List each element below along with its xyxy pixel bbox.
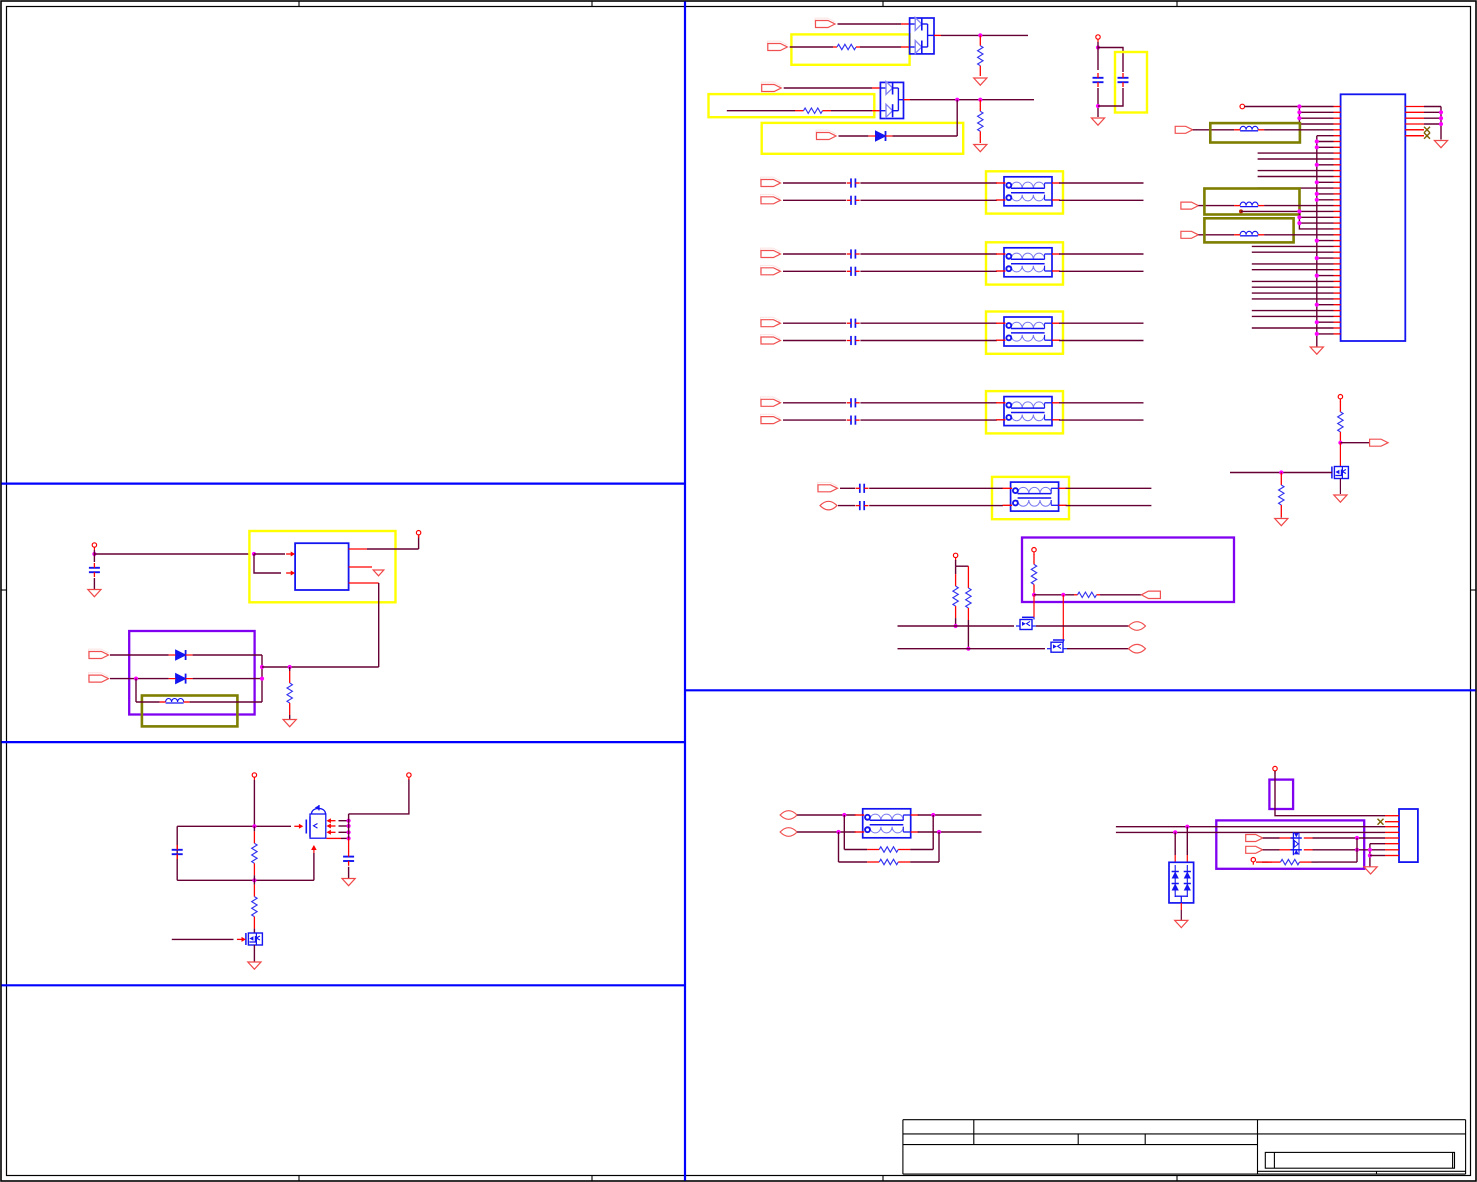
pin stub — [1334, 117, 1341, 119]
wire — [1059, 340, 1144, 342]
wire — [1313, 837, 1386, 839]
wire — [172, 938, 234, 940]
wire — [1193, 129, 1234, 131]
wire — [838, 832, 840, 862]
wire — [1252, 310, 1334, 312]
power node — [1240, 104, 1245, 109]
wire — [956, 565, 969, 567]
common-mode choke L6 — [855, 809, 919, 838]
wire — [843, 815, 845, 850]
resistor R16 — [1262, 859, 1318, 864]
node junction — [1315, 320, 1319, 324]
wire — [955, 560, 957, 566]
node junction — [1315, 274, 1319, 278]
zone tick bottom — [882, 1176, 884, 1182]
ground — [1334, 495, 1347, 502]
wire — [1317, 135, 1334, 137]
pin stub — [1334, 275, 1341, 277]
pin stub — [311, 845, 317, 853]
pin stub — [1334, 135, 1341, 137]
wire — [1059, 322, 1144, 324]
node junction — [955, 98, 959, 102]
wire — [378, 583, 380, 667]
port IN4+ — [761, 397, 781, 406]
wire — [1317, 304, 1334, 306]
dual diode U1 — [910, 18, 934, 54]
pin stub — [1334, 176, 1341, 178]
node junction — [1315, 239, 1319, 243]
pin stub — [1385, 815, 1399, 817]
pin stub — [904, 99, 911, 101]
pin stub — [1385, 855, 1399, 857]
wire — [93, 550, 95, 562]
wire — [1424, 106, 1441, 108]
wire — [254, 553, 285, 555]
node junction — [1297, 116, 1301, 120]
wire — [893, 135, 958, 137]
wire — [418, 535, 420, 549]
pin stub — [349, 566, 372, 568]
pin stub — [1334, 257, 1341, 259]
pin stub — [1405, 117, 1424, 119]
node junction — [252, 878, 256, 882]
pin stub — [1334, 146, 1341, 148]
node junction — [1297, 209, 1301, 213]
pin stub — [1334, 333, 1341, 335]
wire — [1317, 199, 1334, 201]
pin stub — [1334, 129, 1341, 131]
diode array D4 — [1169, 862, 1194, 903]
pin arrow — [286, 552, 295, 557]
node junction — [978, 33, 982, 37]
capacitor C2 — [1118, 73, 1129, 87]
zone tick bottom — [1176, 1176, 1178, 1182]
resistor R8 — [966, 566, 971, 649]
wire — [1370, 843, 1385, 845]
power node — [1273, 766, 1277, 773]
pin stub — [1334, 106, 1341, 108]
wire — [1033, 595, 1035, 618]
wire — [136, 701, 160, 703]
IC U3 — [295, 543, 349, 590]
wire — [1241, 210, 1334, 212]
pin stub — [1334, 315, 1341, 317]
TVS diode array D5 — [1291, 832, 1302, 855]
resistor R10 — [1279, 473, 1284, 518]
pin stub — [1405, 129, 1424, 131]
node junction — [1315, 145, 1319, 149]
port SDA1 — [1129, 644, 1146, 653]
port SDA — [1141, 591, 1160, 598]
N-MOSFET Q1 — [1016, 617, 1036, 629]
wire — [869, 505, 1003, 507]
power node — [252, 773, 256, 780]
node junction — [1315, 139, 1319, 143]
zone tick top — [1176, 1, 1178, 7]
power node — [1032, 548, 1036, 555]
wire — [253, 945, 255, 962]
wire — [1340, 442, 1369, 444]
highlight box purple 3 — [1269, 780, 1293, 809]
capacitor C4 — [847, 196, 860, 205]
wire — [860, 182, 997, 184]
wire — [1245, 106, 1334, 108]
wire — [1317, 240, 1334, 242]
highlight box pair 1 — [986, 171, 1063, 213]
port CLK — [1175, 126, 1193, 133]
port P2 — [767, 41, 787, 50]
wire — [1264, 205, 1333, 207]
power node — [953, 553, 957, 560]
wire — [784, 87, 872, 89]
port IN5+ — [818, 482, 838, 491]
wire — [1424, 117, 1441, 119]
wire — [938, 832, 940, 862]
capacitor C7 — [847, 319, 860, 328]
ground — [88, 590, 101, 597]
port IN2+ — [761, 248, 781, 257]
node junction — [1315, 192, 1319, 196]
pin stub — [1334, 251, 1341, 253]
no-connect — [1424, 127, 1430, 133]
gate arrow — [237, 937, 246, 942]
wire — [839, 135, 869, 137]
ground — [1275, 519, 1288, 526]
pin stub — [1334, 187, 1341, 189]
wire — [1317, 333, 1334, 335]
node junction — [1315, 256, 1319, 260]
pin stub — [901, 46, 910, 48]
node junction — [1439, 122, 1443, 126]
node junction — [1185, 825, 1189, 829]
wire — [1317, 141, 1334, 143]
wire — [348, 867, 350, 878]
wire — [860, 340, 997, 342]
wire — [1034, 594, 1074, 596]
capacitor C12 — [856, 501, 869, 510]
wire — [898, 625, 1015, 627]
pin stub — [1334, 298, 1341, 300]
wire — [339, 820, 349, 822]
pin stub — [349, 582, 379, 584]
wire — [1230, 472, 1332, 474]
wire — [1299, 211, 1333, 229]
pin stub — [1334, 193, 1341, 195]
wire — [110, 678, 169, 680]
pin stub — [1334, 310, 1341, 312]
wire — [910, 99, 1034, 101]
highlight box 6 — [142, 696, 238, 727]
node junction — [1173, 830, 1177, 834]
pin stub — [1334, 216, 1341, 218]
pin arrow — [327, 824, 336, 829]
pin stub — [1405, 111, 1424, 113]
wire — [1275, 771, 1385, 816]
section divider vertical — [684, 2, 686, 1181]
highlight box FB1 — [1210, 123, 1300, 142]
wire — [1440, 107, 1442, 140]
common-mode choke L3 — [996, 317, 1060, 346]
wire — [783, 340, 846, 342]
wire — [797, 831, 856, 833]
wire — [1252, 245, 1334, 247]
no-connect — [1378, 819, 1384, 825]
resistor R7 — [953, 566, 958, 626]
wire — [1067, 648, 1129, 650]
node junction — [1315, 180, 1319, 184]
resistor R6 — [1074, 592, 1100, 597]
wire — [348, 838, 350, 852]
wire — [1186, 827, 1188, 863]
pin stub — [1334, 152, 1341, 154]
node junction — [1297, 110, 1301, 114]
wire — [1299, 107, 1333, 125]
ground — [1364, 867, 1377, 874]
pin stub — [1334, 245, 1341, 247]
pin stub — [1405, 129, 1424, 131]
wire — [1198, 234, 1234, 236]
node junction — [1355, 848, 1359, 852]
wire — [1059, 182, 1144, 184]
node junction — [1239, 209, 1243, 213]
wire — [1299, 117, 1333, 119]
ground — [974, 145, 987, 152]
pin stub — [1256, 861, 1272, 863]
wire — [783, 253, 846, 255]
N-MOSFET Q3 — [1332, 467, 1349, 479]
pin stub — [1405, 135, 1424, 137]
pin stub — [1334, 111, 1341, 113]
node junction — [252, 824, 256, 828]
pin stub — [1334, 228, 1341, 230]
wire — [797, 814, 856, 816]
wire — [254, 554, 281, 573]
wire — [1252, 298, 1334, 300]
pin stub — [1385, 831, 1399, 833]
node junction — [1338, 441, 1342, 445]
resistor R15 — [839, 859, 940, 864]
zone tick top — [882, 1, 884, 7]
node junction — [1368, 848, 1372, 852]
wire — [1424, 111, 1441, 113]
section divider left 1 — [2, 483, 686, 485]
highlight box pair 2 — [986, 242, 1063, 284]
port P1 — [815, 18, 835, 27]
wire — [1424, 123, 1441, 125]
wire — [1318, 861, 1357, 863]
port P4 — [816, 130, 836, 139]
wire — [1116, 826, 1385, 828]
capacitor C10 — [847, 416, 860, 425]
wire — [783, 419, 846, 421]
section divider left 2 — [2, 741, 686, 743]
gate arrow — [294, 824, 303, 829]
wire — [1317, 193, 1334, 195]
node junction — [1439, 110, 1443, 114]
wire — [838, 23, 902, 25]
wire — [1252, 292, 1334, 294]
power node — [1338, 395, 1342, 402]
resistor R13 — [252, 880, 257, 933]
wire — [341, 837, 349, 839]
wire — [190, 701, 262, 703]
wire — [1313, 849, 1386, 851]
wire — [313, 853, 315, 880]
connector J1 — [1341, 94, 1406, 341]
wire — [941, 34, 1028, 36]
pin stub — [934, 34, 941, 36]
wire — [1299, 111, 1333, 113]
wire — [1356, 838, 1358, 862]
capacitor C11 — [856, 484, 869, 493]
wire — [790, 46, 833, 48]
pin stub — [1405, 106, 1424, 108]
no-connect — [1424, 133, 1430, 139]
diode D2 — [169, 650, 193, 660]
capacitor C14 — [343, 852, 354, 866]
wire — [860, 322, 997, 324]
wire — [1317, 275, 1334, 277]
capacitor C5 — [847, 249, 860, 258]
pin stub — [1334, 210, 1341, 212]
resistor R2 — [978, 35, 983, 76]
wire — [1198, 205, 1234, 207]
wire — [1252, 280, 1334, 282]
highlight box pair 3 — [986, 312, 1063, 354]
capacitor C1 — [1093, 73, 1104, 87]
port IN1+ — [761, 177, 781, 186]
ground — [373, 570, 384, 576]
pin stub — [1385, 849, 1399, 851]
wire — [869, 487, 1003, 489]
node junction — [836, 830, 840, 834]
wire — [1317, 146, 1334, 148]
section divider right — [685, 689, 1476, 691]
pin stub — [1334, 234, 1341, 236]
highlight box 1 — [791, 34, 909, 64]
pin stub — [1334, 123, 1341, 125]
wire — [1062, 595, 1064, 640]
wire — [1059, 253, 1144, 255]
wire — [783, 402, 846, 404]
section divider left 3 — [2, 984, 686, 986]
node junction — [931, 813, 935, 817]
bus wire — [1316, 136, 1318, 347]
power node — [407, 773, 411, 780]
ferrite bead FB2 — [1234, 202, 1264, 206]
wire — [1263, 849, 1280, 851]
wire — [262, 666, 379, 668]
port IN3- — [761, 335, 781, 344]
pin stub — [1334, 240, 1341, 242]
wire — [367, 548, 419, 550]
node junction — [92, 552, 96, 556]
ferrite bead FB4 — [160, 699, 190, 703]
pin stub — [1280, 837, 1313, 839]
pin stub — [1334, 170, 1341, 172]
port IN2- — [761, 265, 781, 274]
highlight box pair 5 — [992, 477, 1069, 519]
wire — [1116, 831, 1385, 833]
node junction — [1096, 104, 1100, 108]
node junction — [1096, 45, 1100, 49]
wire — [783, 182, 846, 184]
node junction — [347, 824, 351, 828]
wire — [1258, 170, 1334, 172]
wire — [1252, 269, 1334, 271]
wire — [1317, 257, 1334, 259]
wire — [831, 110, 872, 112]
ground — [1091, 118, 1104, 125]
wire — [1098, 88, 1123, 106]
wire — [727, 110, 795, 112]
port DP — [780, 811, 797, 820]
wire — [1258, 176, 1334, 178]
ground — [1175, 920, 1188, 927]
node junction — [347, 819, 351, 823]
pin stub — [1334, 205, 1341, 207]
wire — [1263, 837, 1280, 839]
wire — [135, 679, 137, 702]
wire — [339, 831, 349, 833]
wire — [860, 270, 997, 272]
capacitor C6 — [847, 267, 860, 276]
pin stub — [1405, 123, 1424, 125]
common-mode choke L2 — [996, 248, 1060, 277]
wire — [898, 648, 1046, 650]
port IN5- — [820, 501, 837, 510]
node junction — [1315, 198, 1319, 202]
resistor R14 — [844, 847, 933, 852]
wire — [1036, 625, 1129, 627]
node junction — [1297, 221, 1301, 225]
P-MOSFET Q4 — [306, 805, 326, 838]
highlight box purple 1 — [1022, 538, 1234, 603]
resistor R3 — [795, 108, 831, 113]
node junction — [347, 836, 351, 840]
ground — [1310, 347, 1323, 354]
pin arrow — [327, 818, 336, 823]
capacitor C15 — [172, 845, 183, 859]
port B — [1246, 846, 1263, 853]
wire — [177, 879, 314, 881]
wire — [840, 487, 855, 489]
node junction — [1439, 116, 1443, 120]
wire — [860, 199, 997, 201]
pin stub — [1334, 181, 1341, 183]
wire — [1264, 129, 1333, 131]
wire — [177, 825, 291, 827]
power node — [92, 543, 96, 550]
wire — [1258, 158, 1334, 160]
wire — [1066, 487, 1152, 489]
port IN1- — [761, 194, 781, 203]
highlight box FB2 — [1204, 189, 1299, 215]
pin stub — [901, 23, 910, 25]
port P3 — [761, 82, 781, 91]
pin stub — [1334, 286, 1341, 288]
node junction — [1315, 332, 1319, 336]
zone tick right — [1471, 589, 1477, 591]
wire — [1066, 505, 1152, 507]
node junction — [252, 552, 256, 556]
node junction — [260, 665, 264, 669]
wire — [1252, 263, 1334, 265]
node junction — [978, 98, 982, 102]
highlight box 2 — [709, 94, 875, 117]
capacitor C13 — [89, 563, 100, 577]
wire — [1252, 286, 1334, 288]
